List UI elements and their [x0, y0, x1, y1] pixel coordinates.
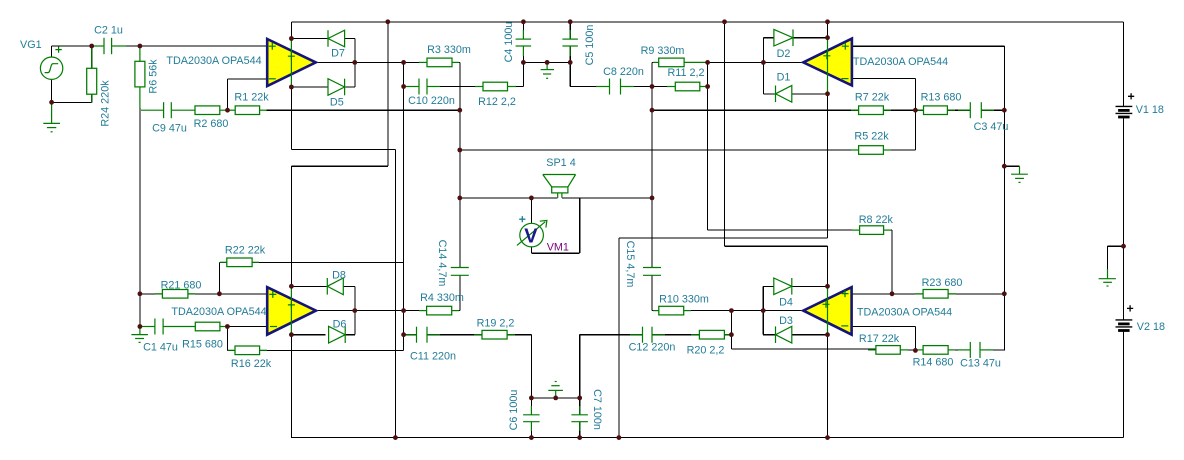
junction U4out-R20 [729, 308, 734, 313]
svg-text:R10 330m: R10 330m [659, 294, 709, 306]
svg-text:D1: D1 [777, 72, 791, 84]
diode D3 [776, 326, 792, 343]
junction C10 left [401, 84, 406, 89]
svg-text:TDA2030A OPA544: TDA2030A OPA544 [857, 306, 952, 318]
svg-text:R21 680: R21 680 [161, 280, 202, 292]
svg-text:R4 330m: R4 330m [420, 292, 464, 304]
wire D7 row lead left [291, 38, 328, 40]
wire R6 bottom lead [139, 87, 141, 110]
wire U3 V- to bottom rail [290, 335, 292, 438]
svg-text:C8 220n: C8 220n [603, 66, 644, 78]
op-amp U4 TDA2030A [803, 286, 851, 334]
wire left column R6 node down to R21 row [139, 110, 141, 294]
wire R9 R11 node column x652 [651, 62, 653, 267]
svg-text:V: V [524, 226, 538, 248]
junction R1-nodeA [457, 108, 462, 113]
resistor R20 [691, 330, 731, 339]
junction U2out-diodes [761, 60, 766, 65]
resistor R3 [419, 58, 459, 67]
wire battery mid ground drop [1107, 246, 1109, 271]
junction R20 right [729, 332, 734, 337]
svg-text:D4: D4 [779, 297, 793, 309]
junction rail-U1V- [393, 435, 398, 440]
wire C4 bottom lead [522, 46, 524, 62]
svg-text:C12 220n: C12 220n [629, 342, 676, 354]
battery V1 [1116, 93, 1135, 117]
wire R19 right lead [507, 334, 531, 336]
junction VG1 gnd [49, 100, 54, 105]
ground VG1 [43, 104, 60, 132]
svg-text:R1 22k: R1 22k [234, 92, 269, 104]
junction U2out-bus [705, 60, 710, 65]
op-amp U3 TDA2030A [267, 286, 316, 334]
svg-text:VM1: VM1 [547, 242, 569, 254]
junction R21 left [138, 291, 143, 296]
junction C7 top [577, 396, 582, 401]
junction rail-C7 [577, 435, 582, 440]
svg-text:V2 18: V2 18 [1137, 321, 1165, 333]
junction U2 V- pin [825, 91, 830, 96]
wire R19 drop to C6 [530, 335, 532, 398]
svg-text:R13 680: R13 680 [921, 91, 962, 103]
wire R17 row west [731, 348, 876, 350]
wire U1 V- pin drop [290, 87, 292, 150]
resistor R11 [667, 82, 708, 91]
wire VG1 bottom stub [51, 79, 53, 102]
capacitor C9 [141, 102, 195, 118]
junction U4in-x1004 [1002, 291, 1007, 296]
capacitor C2 [93, 38, 127, 54]
svg-text:TDA2030A OPA544: TDA2030A OPA544 [171, 306, 266, 318]
junction C5 bottom [568, 60, 573, 65]
capacitor C3 [958, 102, 994, 118]
wire U2 V- drop [827, 94, 829, 238]
junction C1 gnd [138, 324, 143, 329]
wire D6 row lead right [345, 334, 355, 336]
wire VM1 bottom row [531, 252, 579, 254]
wire V+ top rail [291, 21, 1123, 23]
wire R22 row [219, 261, 226, 263]
junction speaker left nodeA [457, 196, 462, 201]
svg-text:C15 4,7m: C15 4,7m [624, 241, 636, 288]
wire V1 top stub [1123, 22, 1125, 107]
resistor R10 [653, 306, 691, 315]
junction rail-U2V+ [825, 19, 830, 24]
wire R8 row [708, 229, 860, 231]
capacitor C4 [516, 30, 532, 56]
capacitor C1 [141, 319, 195, 335]
wire C5 bottom lead [569, 46, 571, 62]
svg-text:D7: D7 [331, 48, 345, 60]
svg-text:R22 22k: R22 22k [225, 244, 266, 256]
voltmeter VM1 [517, 216, 547, 248]
wire R20 right lead [724, 334, 731, 336]
wire U2 V- jog horizontal [619, 237, 828, 239]
svg-text:TDA2030A OPA544: TDA2030A OPA544 [853, 56, 948, 68]
svg-text:C2 1u: C2 1u [94, 25, 123, 37]
svg-text:R15 680: R15 680 [182, 339, 223, 351]
resistor R13 [916, 106, 955, 115]
wire right output bus x707 [707, 62, 709, 230]
resistor R21 [155, 290, 195, 299]
resistor R14 [916, 346, 955, 355]
capacitor C7 [571, 406, 588, 431]
capacitor C13 [958, 342, 993, 358]
wire V2 bottom stub [1123, 330, 1125, 437]
ground battery midpoint [1099, 269, 1116, 286]
wire U3 output row [316, 310, 427, 312]
svg-text:R7 22k: R7 22k [855, 91, 890, 103]
wire U3 V+ column [290, 166, 292, 286]
resistor R22 [220, 258, 259, 267]
wire R12 to C4 node riser [508, 86, 524, 88]
wire U2 -in riser down [914, 79, 916, 111]
battery V2 [1116, 305, 1134, 330]
junction U4 V- pin [825, 332, 830, 337]
junction U1out-diodes [352, 60, 357, 65]
wire R9 left corner [652, 61, 659, 63]
wire R7 row [652, 109, 859, 111]
wire C5 node down to C8 row [569, 62, 571, 86]
svg-text:R24 220k: R24 220k [100, 80, 112, 127]
svg-text:D2: D2 [777, 48, 791, 60]
resistor R8 [852, 226, 891, 235]
capacitor C10 [405, 79, 440, 95]
wire R24 top lead [91, 46, 93, 68]
junction R21-R22 [217, 291, 222, 296]
wire D4 row lead right [792, 285, 828, 287]
wire R7 to R13 [883, 109, 923, 111]
wire D6 row lead left [291, 334, 325, 336]
wire C1 left lead [140, 326, 155, 328]
diode D5 [328, 79, 345, 96]
junction R17-R14 [913, 348, 918, 353]
svg-text:R6 56k: R6 56k [148, 59, 160, 94]
wire C12 to R20 [652, 334, 699, 336]
wire U1 -in row [228, 78, 268, 80]
wire VM1 bottom stub [530, 247, 532, 253]
svg-text:C13 47u: C13 47u [960, 358, 1001, 370]
wire R3 right lead to node A [452, 61, 460, 63]
resistor R9 [653, 58, 708, 67]
wire C7 bottom lead [579, 422, 581, 438]
diode D2 [774, 29, 793, 46]
svg-text:C10 220n: C10 220n [408, 95, 455, 107]
junction R11 right [705, 84, 710, 89]
junction rail-C4 [521, 19, 526, 24]
wire C2 to R6 node [122, 45, 140, 47]
junction C2-R24 [89, 44, 94, 49]
wire D7 D5 branch vertical [354, 39, 356, 88]
wire R22 right to output bus [252, 261, 404, 263]
svg-text:V1 18: V1 18 [1136, 104, 1164, 116]
junction U4 V+ pin [825, 284, 830, 289]
wire R16 row to output bus [260, 349, 404, 351]
wire U1 V- jog horizontal [291, 149, 395, 151]
wire R15 to U3 -in [220, 326, 267, 328]
wire rail drop for U4 V+ [724, 22, 726, 246]
diode D1 [776, 86, 792, 103]
junction R15-U3in [225, 324, 230, 329]
wire C6 top lead [530, 398, 532, 415]
resistor R16 [228, 346, 267, 355]
svg-text:R17 22k: R17 22k [859, 333, 900, 345]
wire R17 to R14 [900, 349, 923, 351]
wire D8 row lead left [291, 285, 327, 287]
svg-text:R11 2,2: R11 2,2 [667, 67, 704, 79]
junction C11 left [401, 332, 406, 337]
ground top-center [541, 62, 554, 78]
wire R22 left riser [218, 262, 220, 294]
diode D7 [328, 30, 345, 47]
svg-text:D6: D6 [333, 319, 347, 331]
svg-text:C5 100n: C5 100n [584, 25, 596, 66]
svg-text:R14 680: R14 680 [913, 357, 954, 369]
junction R7 row left [650, 108, 655, 113]
wire R1 feedback row to node A [266, 109, 460, 111]
wire C7 top lead [579, 398, 581, 415]
junction gnd bottom [553, 396, 558, 401]
resistor R2 [195, 106, 227, 115]
ground mid-right [1011, 166, 1028, 182]
wire C5 top lead [569, 22, 571, 39]
wire R15 node drop [226, 327, 228, 351]
junction R8-U4in [890, 291, 895, 296]
svg-text:R23 680: R23 680 [922, 277, 963, 289]
wire C2 node to U1 +in [140, 45, 267, 47]
junction U1out-bus [401, 60, 406, 65]
capacitor C14 [451, 268, 469, 276]
resistor R5 [851, 146, 891, 155]
junction gnd top [545, 60, 550, 65]
wire node A column lower [459, 275, 461, 310]
junction rail-U4V+ [722, 19, 727, 24]
wire R8 drop to U4 +row [891, 230, 893, 294]
junction C4 bottom [521, 60, 526, 65]
speaker SP1 [543, 175, 576, 198]
wire R8 right corner [884, 229, 892, 231]
svg-text:R19 2,2: R19 2,2 [477, 318, 515, 330]
wire V- bottom rail [291, 437, 1124, 439]
resistor R12 [475, 82, 516, 91]
junction U2 V+ pin [825, 35, 830, 40]
junction U4out-diodes [761, 308, 766, 313]
resistor R15 [195, 322, 227, 331]
wire left column R21 row to C1 gnd node [139, 294, 141, 327]
wire U4 -in row [852, 326, 916, 328]
wire U4 -in riser down [914, 327, 916, 351]
wire VM1 top stub [530, 198, 532, 223]
op-amp U2 TDA2030A [803, 38, 852, 94]
wire C10 row [404, 86, 419, 88]
wire C1 to R15 [163, 326, 195, 328]
wire D2 D1 branch vertical [762, 38, 764, 94]
svg-text:R9 330m: R9 330m [641, 45, 685, 57]
resistor R1 [228, 106, 267, 115]
resistor R23 [915, 290, 956, 299]
wire U4 +in row [852, 293, 1005, 295]
wire VM1 right riser [579, 198, 581, 253]
wire U2 -in row [852, 78, 916, 80]
wire R24 bottom lead [91, 94, 93, 102]
wire D2 row lead left [763, 37, 774, 39]
capacitor C15 [643, 268, 661, 276]
wire C3 right lead [981, 109, 1004, 111]
svg-text:C3 47u: C3 47u [974, 121, 1009, 133]
wire R21 row left lead [140, 293, 163, 295]
capacitor C11 [405, 327, 440, 343]
junction C6 top [529, 396, 534, 401]
wire R12 corner up [522, 62, 524, 86]
wire V1 to mid node [1123, 117, 1125, 246]
wire U4 V+ column [827, 246, 829, 286]
svg-text:R12 2,2: R12 2,2 [478, 96, 516, 108]
svg-text:VG1: VG1 [20, 39, 42, 51]
wire R6 top lead [139, 46, 141, 61]
wire R16 left lead [227, 349, 235, 351]
junction C3 right [1002, 108, 1007, 113]
svg-text:R16 22k: R16 22k [231, 358, 272, 370]
wire R11 right lead [700, 86, 708, 88]
capacitor C6 [523, 406, 540, 431]
ground C1 [131, 328, 148, 342]
ground bottom-center inverted [548, 382, 563, 398]
wire VG1 top stub [51, 46, 53, 57]
wire mid ground stub right [1004, 165, 1019, 167]
wire D1 row lead right [792, 93, 828, 95]
junction VM1 top [529, 196, 534, 201]
wire D8 row lead right [343, 285, 355, 287]
wire C4 bottom row with ground [523, 61, 570, 63]
wire U1 output row [316, 61, 427, 63]
wire D5 row lead left [291, 86, 328, 88]
wire R4 right lead to node A [452, 310, 460, 312]
svg-text:R2 680: R2 680 [194, 118, 229, 130]
wire U4 output row [652, 310, 659, 312]
junction rail-U2V- [617, 435, 622, 440]
wire R20 node column [730, 311, 732, 349]
junction speaker right nodeB [650, 196, 655, 201]
diode D4 [774, 278, 792, 295]
junction U3out-diodes [352, 308, 357, 313]
wire U2 V+ pin stub [827, 22, 829, 38]
junction rail-C6 [529, 435, 534, 440]
wire VG1 to C2 row [52, 45, 94, 47]
capacitor C8 [596, 79, 634, 95]
svg-text:C7 100n: C7 100n [591, 389, 603, 430]
wire U2 V- column to bottom rail [618, 238, 620, 438]
wire C13 right lead [980, 349, 1004, 351]
wire U4 V- to bottom rail [827, 335, 829, 438]
wire C6 bottom lead [530, 422, 532, 438]
wire C11 to R19 [427, 334, 482, 336]
wire C12 row [580, 334, 643, 336]
junction mid gnd right [1002, 164, 1007, 169]
svg-text:C9 47u: C9 47u [152, 123, 187, 135]
junction rail-U4V- [825, 435, 830, 440]
wire U4 V+ jog horizontal [725, 245, 828, 247]
svg-text:C6 100u: C6 100u [508, 390, 520, 431]
resistor R4 [419, 306, 459, 315]
junction rail-C5 [568, 19, 573, 24]
junction battery midpoint [1121, 244, 1126, 249]
wire C15 bottom to R10 [651, 275, 653, 310]
wire R21 to U3 +in [188, 293, 267, 295]
svg-text:C11 220n: C11 220n [410, 351, 456, 363]
svg-text:D8: D8 [332, 270, 346, 282]
junction U3 V- pin [289, 332, 294, 337]
junction R2-R1 [225, 108, 230, 113]
svg-text:C1 47u: C1 47u [143, 342, 178, 354]
svg-text:C4 100u: C4 100u [503, 22, 515, 63]
wire R10 to U4 tip [684, 310, 804, 312]
wire R14 to C13 [948, 349, 970, 351]
resistor R19 [474, 330, 515, 339]
svg-text:R5 22k: R5 22k [854, 131, 889, 143]
wire C8 to R11 [621, 86, 676, 88]
voltage source VG1 [40, 46, 62, 79]
wire C8 row west [570, 86, 609, 88]
wire output bus x403 [403, 62, 405, 350]
junction R5 row nodeA [457, 148, 462, 153]
wire D4 D3 branch vertical [762, 286, 764, 334]
wire right column x1004 [1003, 46, 1005, 350]
wire R5 right corner [883, 149, 915, 151]
wire C10 to R12 [427, 86, 483, 88]
wire D3 row lead right [792, 334, 828, 336]
wire node A column upper [459, 62, 461, 267]
svg-text:D3: D3 [779, 315, 793, 327]
wire VG1 gnd to R24 [52, 101, 92, 103]
wire C6 C7 top row [531, 397, 579, 399]
wire U3 V+ jog horizontal [291, 165, 387, 167]
wire D4 row lead left [763, 285, 774, 287]
svg-text:TDA2030A OPA544: TDA2030A OPA544 [166, 55, 261, 67]
wire C12 drop to C7 [579, 335, 581, 398]
wire R5 row [460, 149, 859, 151]
wire R13 to C3 [947, 109, 970, 111]
wire U1 V+ pin stub [290, 22, 292, 39]
junction rail-U3V+ [385, 19, 390, 24]
capacitor C5 [562, 30, 578, 56]
svg-text:SP1 4: SP1 4 [546, 157, 575, 169]
svg-text:R20 2,2: R20 2,2 [687, 344, 725, 356]
junction C8-R9 [650, 84, 655, 89]
wire mid node to V2 [1123, 246, 1125, 320]
diode D8 [327, 278, 343, 295]
junction U3out-bus [401, 308, 406, 313]
wire speaker row left [460, 197, 558, 199]
svg-text:C14 4,7m: C14 4,7m [436, 240, 448, 287]
diode D6 [329, 326, 346, 343]
resistor R24 [87, 48, 97, 102]
junction U1 V- pin [289, 85, 294, 90]
wire D2 row lead right [793, 37, 828, 39]
wire D7 row lead right [345, 38, 355, 40]
wire rail drop for U3 V+ [387, 22, 389, 166]
resistor R17 [868, 346, 908, 355]
wire R5 riser to R7 node [914, 110, 916, 150]
wire U1 V- column to bottom rail [394, 150, 396, 438]
wire D1 row lead left [763, 93, 775, 95]
junction U1 V+ pin [289, 36, 294, 41]
svg-text:D5: D5 [330, 97, 344, 109]
wire C11 row lead [404, 334, 417, 336]
svg-text:R8 22k: R8 22k [859, 214, 894, 226]
wire R2 R1 junction riser [227, 79, 229, 110]
wire speaker row right [562, 197, 652, 199]
junction U3 V+ pin [289, 284, 294, 289]
